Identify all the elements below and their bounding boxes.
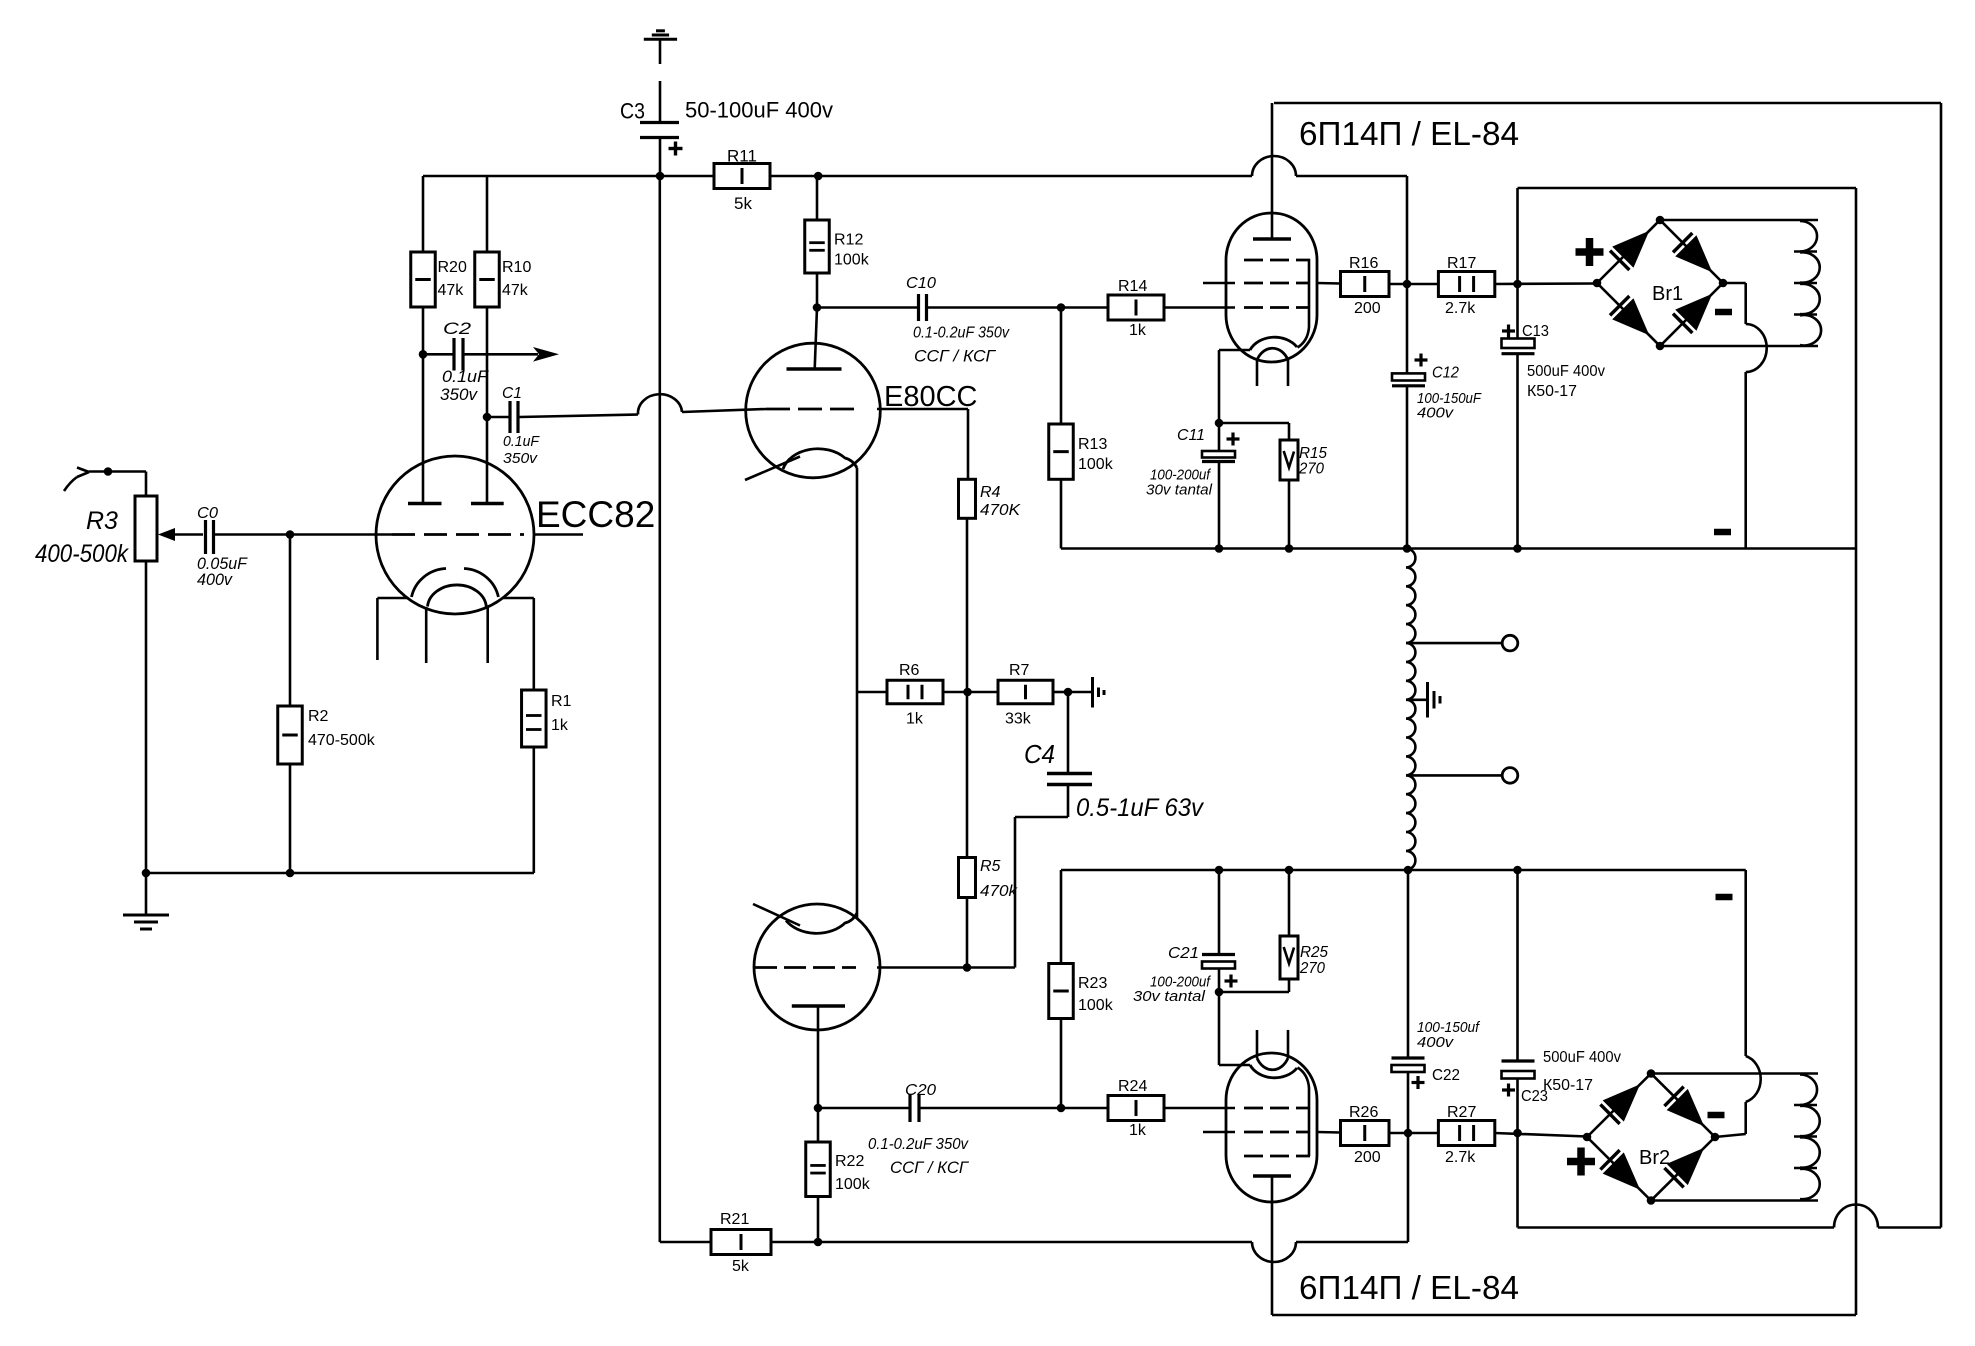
6П14П upper g2 stub left — [1203, 282, 1235, 285]
svg-text:ECC82: ECC82 — [536, 494, 655, 535]
svg-text:C4: C4 — [1024, 739, 1055, 769]
svg-text:0.1-0.2uF 350v: 0.1-0.2uF 350v — [868, 1136, 969, 1153]
svg-text:E80CC: E80CC — [884, 381, 978, 413]
wire R13 top — [1060, 308, 1063, 425]
Br2 diode D3 (lower left) — [1600, 1150, 1619, 1169]
wire R21 to C22 column — [1296, 1241, 1408, 1244]
E80CC lower anode — [792, 1004, 845, 1008]
primary tap 1 — [1406, 642, 1502, 645]
wire C12 column top — [1406, 176, 1409, 284]
resistor R6 — [857, 691, 887, 694]
wire R12 to C10 node — [816, 273, 819, 308]
node R21-R22 junction — [814, 1238, 823, 1247]
svg-text:0.5-1uF 63v: 0.5-1uF 63v — [1076, 794, 1204, 822]
wire C0 to ECC82 grid — [215, 533, 392, 536]
svg-text:C13: C13 — [1522, 323, 1549, 340]
ECC82 grid stub right — [533, 533, 583, 536]
node R25-bus junction — [1285, 866, 1294, 875]
svg-text:400v: 400v — [1417, 1034, 1455, 1051]
6П14П lower heater pin 1 — [1256, 1030, 1259, 1058]
svg-text:C11: C11 — [1177, 427, 1205, 444]
svg-text:R21: R21 — [720, 1211, 749, 1228]
6П14П lower anode — [1253, 1174, 1291, 1178]
wire C2 to arrow — [465, 353, 539, 356]
resistor R14 — [1108, 295, 1164, 320]
node Br1 bottom vertex — [1656, 342, 1665, 351]
svg-text:R12: R12 — [834, 232, 863, 249]
wire R17 to node — [1495, 282, 1597, 285]
6П14П lower cathode lead — [1218, 992, 1221, 1065]
wire R6 to junction — [943, 691, 968, 694]
node R3-ground junction — [142, 869, 151, 878]
svg-text:400v: 400v — [1417, 405, 1455, 422]
terminal tap 2 — [1502, 768, 1518, 784]
svg-text:R11: R11 — [727, 147, 757, 166]
node R13 junction — [1057, 303, 1066, 312]
resistor R25 — [1288, 870, 1291, 936]
svg-text:50-100uF 400v: 50-100uF 400v — [685, 98, 833, 123]
svg-text:100k: 100k — [1078, 997, 1114, 1014]
E80CC upper diagonal — [745, 457, 800, 481]
minus label ch2 box — [1716, 894, 1733, 901]
wire R2 bottom — [289, 764, 292, 873]
resistor R26 — [1341, 1121, 1390, 1146]
svg-text:1k: 1k — [1129, 322, 1147, 339]
node R12 junction — [814, 172, 823, 181]
svg-text:400-500k: 400-500k — [35, 540, 129, 568]
node C13-bus junction — [1513, 544, 1522, 553]
wire Br1 minus down — [1723, 282, 1746, 285]
resistor R13 — [1049, 424, 1074, 479]
svg-text:100k: 100k — [1078, 456, 1114, 473]
E80CC lower cathode arc — [786, 913, 857, 933]
svg-text:R14: R14 — [1118, 278, 1147, 295]
E80CC upper grid exit — [877, 408, 968, 411]
resistor R24 — [1108, 1096, 1164, 1121]
wire C4 to lower grid — [1067, 785, 1070, 818]
wire R10 to C1 node — [486, 307, 489, 417]
bridge Br2 frame — [1587, 1074, 1715, 1201]
node cathode 2 junction — [1215, 988, 1224, 997]
6П14П lower cathode arc — [1250, 1065, 1297, 1078]
capacitor C2 — [423, 353, 453, 356]
node C0-R2 junction — [286, 530, 295, 539]
bus hop over anode lead — [1252, 156, 1296, 176]
svg-text:C10: C10 — [906, 275, 936, 292]
node C12-bus junction — [1403, 544, 1412, 553]
node lower grid junction — [963, 963, 972, 972]
Br1 diode D1 (upper left) — [1610, 251, 1629, 270]
resistor R27 — [1438, 1121, 1494, 1146]
resistor R4 — [959, 479, 976, 518]
ground right of R7 — [1091, 677, 1094, 708]
R3 wiper arrow — [158, 528, 175, 541]
6П14П upper grid g2 (dashed) — [1244, 282, 1310, 285]
E80CC upper grid (dashed) — [766, 408, 858, 411]
Br2 diode D1 (upper left) — [1600, 1104, 1619, 1123]
capacitor C12 — [1406, 284, 1409, 373]
wire C23 top — [1516, 870, 1519, 1061]
capacitor C21 — [1218, 870, 1221, 955]
svg-text:ССГ / КСГ: ССГ / КСГ — [914, 348, 996, 366]
wire Br2 bottom to winding — [1651, 1199, 1818, 1202]
tube E80CC lower envelope — [754, 904, 880, 1030]
wire C20 right — [921, 1107, 1109, 1110]
node R7-C4 junction — [1064, 688, 1073, 697]
svg-text:1k: 1k — [1129, 1122, 1147, 1139]
node R16-R17 junction — [1403, 280, 1412, 289]
svg-text:500uF 400v: 500uF 400v — [1543, 1049, 1621, 1066]
wire ch2 bus corner down to Br2 minus — [1744, 870, 1747, 1056]
ECC82 socket left — [377, 597, 407, 600]
wire Br1 top to winding — [1660, 219, 1818, 222]
svg-text:500uF 400v: 500uF 400v — [1527, 363, 1605, 380]
svg-text:R20: R20 — [438, 259, 467, 276]
E80CC upper anode — [787, 367, 842, 371]
svg-text:47k: 47k — [438, 282, 465, 299]
wire R22 bottom — [817, 1197, 820, 1243]
bus channel 2 cathode/B- — [1061, 869, 1746, 872]
E80CC lower diagonal — [753, 904, 800, 926]
node Br2 bottom vertex — [1647, 1196, 1656, 1205]
wire cathode link E80CC — [856, 468, 859, 919]
wire R5 bottom — [966, 898, 969, 968]
wire C3 to bus — [659, 139, 662, 177]
wire R5 column — [966, 692, 969, 858]
svg-text:C22: C22 — [1432, 1067, 1460, 1084]
svg-text:100k: 100k — [834, 252, 870, 269]
capacitor C0 — [204, 520, 207, 554]
node C22-bus junction — [1404, 866, 1413, 875]
svg-text:R1: R1 — [551, 693, 572, 710]
capacitor C13 — [1516, 284, 1519, 339]
wire ground bus bottom-left — [145, 561, 148, 873]
wire R10 node to ECC82 anode — [486, 417, 489, 504]
wire Br1 bottom to winding — [1660, 345, 1818, 348]
svg-text:R6: R6 — [899, 662, 920, 679]
wire C10 left — [817, 306, 917, 309]
wire R26 to node — [1389, 1132, 1438, 1135]
node C2 junction — [419, 350, 428, 359]
wire C22 column bottom — [1407, 1133, 1410, 1242]
bus channel 1 cathode/B- — [1061, 547, 1856, 550]
wire R23 column — [1060, 870, 1063, 964]
6П14П lower grid g3 (dashed) — [1244, 1155, 1310, 1158]
capacitor C3 — [640, 121, 679, 124]
capacitor C22 — [1407, 1072, 1410, 1133]
plus label Br1 — [1576, 248, 1604, 256]
Br1 diode D4 (lower right) — [1673, 314, 1692, 333]
ECC82 cathode right arc — [464, 569, 498, 598]
svg-text:R26: R26 — [1349, 1104, 1378, 1121]
node C10 junction — [813, 303, 822, 312]
tube 6П14П lower envelope — [1226, 1053, 1317, 1202]
svg-text:C1: C1 — [502, 385, 522, 402]
wire R23 bottom — [1060, 1019, 1063, 1109]
wire C23 column bottom (outer box left) — [1516, 1133, 1519, 1228]
ECC82 grid (dashed) — [392, 533, 524, 536]
wire R20 node to ECC82 anode — [422, 354, 425, 503]
outer bottom hop over inner right edge — [1834, 1205, 1878, 1228]
wire C20 left — [818, 1107, 909, 1110]
ECC82 anode right — [471, 502, 504, 506]
wire C21 bottom — [1218, 969, 1221, 993]
wire C1 to E80CC grid with hop — [520, 415, 639, 418]
wire C12 bottom — [1406, 386, 1409, 549]
node Br1 top vertex — [1656, 216, 1665, 225]
ground bottom-left — [145, 873, 148, 915]
svg-text:R5: R5 — [980, 858, 1001, 875]
wire cathode to R25 — [1219, 991, 1289, 994]
resistor R23 — [1049, 964, 1074, 1019]
minus label Br2 — [1708, 1112, 1725, 1119]
resistor R7 — [968, 691, 999, 694]
svg-text:400v: 400v — [197, 570, 233, 589]
node Br2 right vertex — [1711, 1133, 1720, 1142]
resistor R16 — [1341, 272, 1390, 297]
node R6-R7 junction — [963, 688, 972, 697]
Br1 diode D3 (lower left) — [1610, 296, 1629, 315]
svg-text:0.1uF: 0.1uF — [442, 367, 490, 386]
node C3-bus junction — [656, 172, 665, 181]
terminal tap 1 — [1502, 635, 1518, 651]
resistor R5 — [959, 858, 976, 898]
wire B+ vertical — [658, 176, 661, 1242]
6П14П upper heater pin 1 — [1256, 360, 1259, 386]
plus label Br2 — [1567, 1158, 1595, 1166]
outer box bottom edge — [1878, 1226, 1941, 1229]
svg-text:R25: R25 — [1300, 944, 1328, 961]
svg-text:C2: C2 — [443, 319, 472, 338]
svg-text:0.1-0.2uF 350v: 0.1-0.2uF 350v — [913, 325, 1010, 342]
capacitor C11 — [1218, 423, 1221, 451]
node C1 junction — [483, 413, 492, 422]
transformer primary winding — [1406, 549, 1415, 870]
wire R14 to tube g1 — [1164, 306, 1235, 309]
box 6П14П/EL-84 channel 1 anode loop — [1274, 102, 1941, 105]
tube ECC82 envelope — [376, 456, 534, 614]
resistor R22 — [817, 1108, 820, 1142]
svg-text:C20: C20 — [905, 1082, 936, 1099]
svg-text:47k: 47k — [502, 282, 529, 299]
node C23-bus junction — [1513, 866, 1522, 875]
svg-text:C21: C21 — [1168, 945, 1199, 962]
node Br2 top vertex — [1647, 1069, 1656, 1078]
svg-text:1k: 1k — [551, 717, 569, 734]
svg-text:5k: 5k — [734, 194, 752, 213]
transformer secondary winding ch1 — [1800, 221, 1817, 252]
wire R15 bottom — [1288, 480, 1291, 549]
node C20 junction — [814, 1104, 823, 1113]
E80CC lower grid exit — [877, 966, 967, 969]
svg-text:2.7k: 2.7k — [1445, 1149, 1476, 1166]
svg-text:R7: R7 — [1009, 662, 1030, 679]
svg-text:R15: R15 — [1299, 445, 1327, 462]
6П14П lower grid g2 (dashed) — [1244, 1131, 1310, 1134]
svg-text:R16: R16 — [1349, 255, 1378, 272]
6П14П upper heater arc — [1257, 348, 1288, 360]
ECC82 socket right — [503, 597, 534, 600]
wire B+ bus right — [770, 175, 1252, 178]
svg-text:350v: 350v — [440, 385, 478, 404]
svg-text:R24: R24 — [1118, 1078, 1147, 1095]
wire R4 column — [967, 409, 970, 479]
svg-text:470k: 470k — [980, 883, 1018, 900]
6П14П upper cathode arc — [1250, 337, 1297, 350]
resistor R1 — [532, 598, 535, 690]
capacitor C23 — [1516, 1079, 1519, 1134]
resistor R11 — [714, 164, 770, 189]
resistor R20 — [422, 176, 425, 252]
svg-text:270: 270 — [1298, 461, 1324, 478]
minus label inner box ch1 — [1714, 529, 1731, 536]
svg-text:5k: 5k — [732, 1258, 750, 1275]
ECC82 anode left — [408, 502, 442, 506]
resistor R2 — [278, 706, 303, 764]
tube E80CC upper envelope — [746, 343, 881, 478]
6П14П upper grid g1 (dashed) — [1244, 306, 1310, 309]
6П14П upper grid g3 (dashed) — [1244, 259, 1310, 262]
6П14П lower heater arc — [1257, 1058, 1288, 1070]
wire input to R3 top — [77, 468, 89, 473]
node Br1 right vertex — [1719, 279, 1728, 288]
capacitor C20 — [908, 1094, 911, 1122]
svg-text:R3: R3 — [86, 507, 118, 535]
node C11-bus junction — [1215, 544, 1224, 553]
node R15-bus junction — [1285, 544, 1294, 553]
wire C11 bottom — [1218, 462, 1221, 549]
svg-text:100k: 100k — [835, 1176, 871, 1193]
ground top — [644, 38, 677, 41]
svg-text:33k: 33k — [1005, 711, 1032, 728]
capacitor C4 — [1067, 692, 1070, 774]
wire ground to C3 — [659, 81, 662, 122]
6П14П lower grid g1 (dashed) — [1244, 1107, 1310, 1110]
wire Br2 top to winding — [1651, 1072, 1818, 1075]
primary center tap ground — [1406, 698, 1427, 701]
svg-text:470-500k: 470-500k — [308, 732, 376, 749]
svg-text:R27: R27 — [1447, 1104, 1476, 1121]
svg-text:C3: C3 — [620, 99, 645, 124]
wire R21 to hop — [771, 1241, 1252, 1244]
svg-text:R22: R22 — [835, 1153, 864, 1170]
wire C10 right — [928, 306, 1108, 309]
node R27-C23 junction — [1513, 1129, 1522, 1138]
svg-text:350v: 350v — [503, 450, 539, 467]
node R17-C13 junction — [1513, 280, 1522, 289]
transformer secondary winding ch2 — [1800, 1075, 1817, 1106]
resistor R17 — [1438, 272, 1494, 297]
svg-text:2.7k: 2.7k — [1445, 300, 1476, 317]
node R2-ground junction — [286, 869, 295, 878]
node C21-bus junction — [1215, 866, 1224, 875]
wire g2 to R16 — [1317, 282, 1341, 285]
wire R7 to ground — [1053, 691, 1068, 694]
resistor R15 — [1288, 423, 1291, 440]
wire R24 to tube g1 — [1164, 1107, 1235, 1110]
svg-text:1k: 1k — [906, 711, 924, 728]
wire R27 to node — [1495, 1133, 1587, 1137]
svg-text:Br2: Br2 — [1639, 1147, 1670, 1169]
svg-text:R17: R17 — [1447, 255, 1476, 272]
svg-text:R2: R2 — [308, 708, 329, 725]
svg-text:C12: C12 — [1432, 365, 1459, 382]
Br2 diode D4 (lower right) — [1664, 1168, 1683, 1187]
svg-text:200: 200 — [1354, 1149, 1381, 1166]
node input junction — [104, 467, 113, 476]
svg-text:ССГ / КСГ: ССГ / КСГ — [890, 1159, 969, 1177]
wire R16 to node — [1389, 283, 1438, 286]
wire R2 column top — [289, 535, 292, 707]
svg-text:Br1: Br1 — [1652, 283, 1683, 305]
6П14П upper heater pin 2 — [1287, 360, 1290, 386]
node R26-R27 junction — [1404, 1129, 1413, 1138]
svg-text:30v tantal: 30v tantal — [1133, 988, 1206, 1005]
svg-text:470K: 470K — [980, 502, 1021, 519]
Br1 diode D2 (upper right) — [1673, 233, 1692, 252]
node Br1 left vertex — [1593, 279, 1602, 288]
svg-text:C0: C0 — [197, 505, 218, 522]
wire C13 column top (inner box left) — [1516, 188, 1519, 284]
svg-text:30v tantal: 30v tantal — [1146, 482, 1213, 499]
ECC82 heater pin 2 — [486, 607, 489, 663]
svg-text:R13: R13 — [1078, 436, 1107, 453]
box channel-1 floating supply (inner box) — [1518, 187, 1857, 190]
tube 6П14П upper envelope — [1226, 213, 1317, 362]
svg-text:R23: R23 — [1078, 975, 1107, 992]
C2 output arrow — [533, 347, 559, 362]
node Br2 left vertex — [1583, 1133, 1592, 1142]
wire cathode to R15 — [1219, 422, 1289, 425]
svg-text:R10: R10 — [502, 259, 531, 276]
svg-text:200: 200 — [1354, 300, 1381, 317]
6П14П upper anode — [1253, 237, 1291, 241]
svg-text:6П14П / EL-84: 6П14П / EL-84 — [1299, 1269, 1519, 1306]
6П14П lower g2 stub left — [1203, 1131, 1235, 1134]
Br2 diode D2 (upper right) — [1664, 1087, 1683, 1106]
wire g2 to R26 — [1317, 1131, 1341, 1134]
wire R4 to R6 node — [966, 518, 969, 692]
ECC82 heater arc — [428, 585, 487, 607]
svg-text:R4: R4 — [980, 484, 1001, 501]
resistor R10 — [486, 176, 489, 252]
wire R20 to C2 node — [422, 307, 425, 354]
wire C22 top — [1407, 870, 1410, 1058]
6П14П lower g3 tie — [1298, 1068, 1310, 1157]
ECC82 heater pin 1 — [425, 607, 428, 663]
wire R13 bottom — [1060, 479, 1063, 548]
box channel 2 anode loop bottom — [1272, 1314, 1856, 1317]
primary tap 2 — [1406, 774, 1502, 777]
wire C13 bottom — [1516, 354, 1519, 549]
bridge Br1 frame — [1597, 220, 1723, 346]
6П14П upper g3 tie — [1298, 259, 1310, 348]
wire R1 bottom — [532, 747, 535, 873]
svg-text:270: 270 — [1299, 960, 1325, 977]
svg-text:0.1uF: 0.1uF — [503, 433, 540, 450]
node R23 junction — [1057, 1104, 1066, 1113]
svg-text:6П14П / EL-84: 6П14П / EL-84 — [1299, 115, 1519, 152]
svg-text:К50-17: К50-17 — [1527, 383, 1577, 400]
6П14П upper cathode lead — [1219, 349, 1250, 352]
wire B+ bus left — [423, 175, 714, 178]
resistor R21 — [660, 1241, 711, 1244]
R21 wire hop under anode lead — [1252, 1242, 1296, 1262]
wire bus to C12 column — [1296, 175, 1407, 178]
6П14П lower heater pin 2 — [1287, 1030, 1290, 1058]
capacitor C10 — [917, 294, 920, 321]
svg-text:К50-17: К50-17 — [1543, 1077, 1593, 1094]
